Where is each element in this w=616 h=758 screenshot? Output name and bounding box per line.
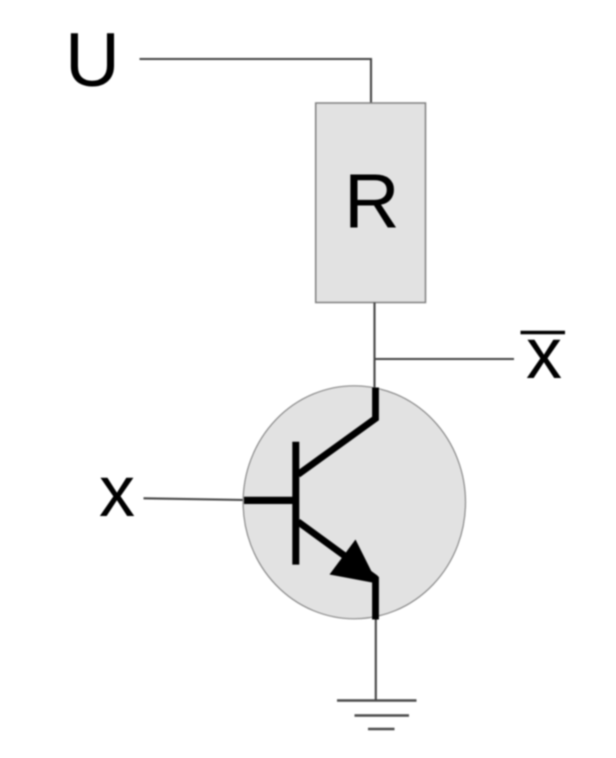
- svg-text:x: x: [99, 452, 135, 532]
- svg-text:R: R: [344, 159, 400, 245]
- svg-text:U: U: [65, 18, 120, 103]
- svg-text:x: x: [526, 314, 562, 394]
